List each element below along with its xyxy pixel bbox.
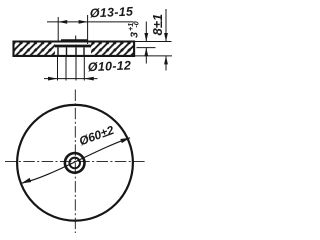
svg-text:8±1: 8±1 <box>150 14 165 36</box>
arrowhead left of D13-15 <box>58 20 67 24</box>
section axis centerline <box>75 36 77 49</box>
depth 3 arrowhead up <box>144 48 148 57</box>
extension line down 4 (hole) <box>83 57 85 81</box>
thickness 8 dimension lower shaft <box>165 56 167 70</box>
hole wall vertical 4 <box>83 47 85 55</box>
section view: hatched right segment <box>91 42 134 55</box>
svg-text:-0: -0 <box>134 21 141 27</box>
front view: counterbore circle <box>65 153 85 173</box>
front view: horizontal centerline <box>5 161 147 163</box>
extension line right middle stub <box>137 47 156 49</box>
svg-text:Ø10-12: Ø10-12 <box>88 58 132 74</box>
section outline: right end edge <box>133 41 135 57</box>
thickness 8 dimension upper shaft <box>165 9 167 41</box>
front view: vertical centerline <box>74 90 76 234</box>
extension line down 3 (hole) <box>75 57 77 81</box>
label D60 plus-minus 2 <box>77 123 116 149</box>
diameter D60 dimension line <box>22 138 131 183</box>
hole wall vertical 2 <box>66 47 68 55</box>
hole wall vertical 3 <box>75 47 77 55</box>
depth 3 dimension lower shaft <box>145 48 147 64</box>
label 8 plus-minus 1 <box>150 14 165 36</box>
counterbore bottom line B <box>55 45 91 48</box>
arrowhead right of D13-15 <box>79 20 88 24</box>
extension line right top <box>135 41 172 43</box>
svg-text:3: 3 <box>129 32 141 38</box>
thickness 8 arrowhead down <box>164 33 168 42</box>
depth 3 dimension upper shaft <box>145 22 147 42</box>
D60 arrowhead upper-right <box>120 138 130 143</box>
extension line right bottom <box>135 55 172 57</box>
dimension line D13-15 <box>47 21 134 23</box>
section outline: bottom edge <box>13 55 135 57</box>
hole wall vertical 1 <box>57 47 59 55</box>
extension line down 2 (hole) <box>65 57 67 81</box>
extension line up right (counterbore) <box>87 15 89 44</box>
arrowhead right of D10-12 <box>84 77 94 81</box>
front view: hole circle <box>69 158 80 169</box>
arrowhead left of D10-12 <box>48 77 58 81</box>
extension line up left (counterbore) <box>57 17 59 41</box>
depth 3 arrowhead down <box>144 33 148 42</box>
section outline: raised double line over counterbore <box>61 39 88 41</box>
section view: hatched left segment <box>14 42 55 55</box>
label 3 +1/-0 <box>128 21 141 38</box>
D60 arrowhead lower-left <box>22 178 32 183</box>
svg-text:Ø13-15: Ø13-15 <box>90 4 135 20</box>
extension line down 1 (hole) <box>57 57 59 81</box>
dimension line D10-12 <box>44 78 98 80</box>
thickness 8 arrowhead up <box>164 56 168 65</box>
section outline: left end edge <box>12 41 14 57</box>
front view: outer circle <box>17 105 133 221</box>
section outline: top edge <box>13 40 135 42</box>
